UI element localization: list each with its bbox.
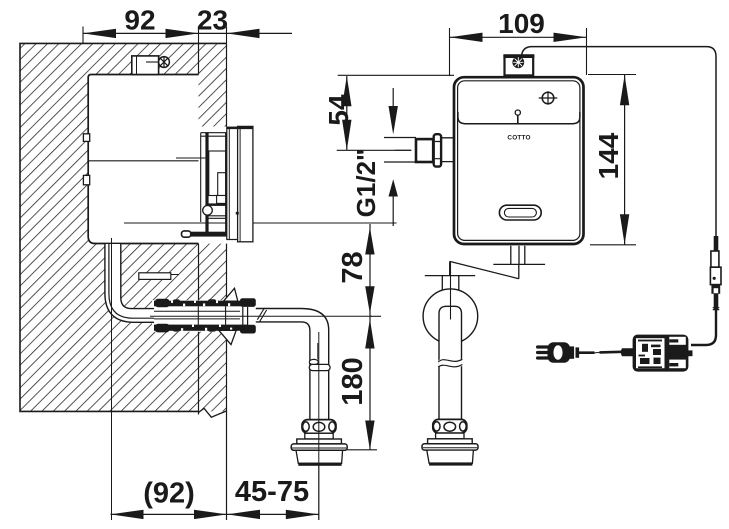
inline connector lower body: [710, 267, 721, 284]
wall hole for supply union: [152, 300, 227, 332]
svg-text:G1/2": G1/2": [351, 149, 381, 218]
G1/2 collar: [434, 134, 441, 166]
svg-text:45-75: 45-75: [235, 476, 309, 508]
arrow 92 left: [83, 29, 116, 38]
svg-text:(92): (92): [143, 478, 195, 510]
sensor panel: [458, 112, 580, 124]
valve black bar: [207, 203, 227, 206]
band break zigzag cutout: [199, 408, 227, 430]
wire tick marks: [713, 308, 720, 310]
union thread band bottom: [154, 325, 248, 331]
cistern divider line: [88, 160, 198, 162]
dim 78/180: [369, 224, 371, 450]
arrow 92 right / 23 left: [166, 29, 199, 38]
valve cavity rect lower: [218, 173, 226, 196]
sensor window oval: [499, 205, 541, 220]
band break zigzag lines: [199, 408, 227, 417]
G1/2 square body: [416, 139, 433, 162]
wire below connector: [714, 294, 719, 311]
mounting tab lower: [83, 175, 89, 184]
cone washer upper: [224, 288, 238, 301]
dim 109: [450, 36, 587, 38]
inline connector upper sleeve: [714, 236, 719, 252]
pipe mid line: [317, 343, 319, 360]
plate tick: [236, 212, 239, 215]
svg-text:78: 78: [337, 251, 369, 283]
svg-text:COTTO: COTTO: [507, 134, 530, 141]
union end nut: [240, 298, 256, 307]
dim 54: [338, 74, 454, 76]
valve trap bump: [203, 206, 213, 216]
wall inner face line: [198, 43, 200, 414]
stub to box: [442, 138, 455, 162]
plate junction dark line: [225, 133, 227, 236]
adapter body: [633, 335, 689, 372]
union thread band top: [154, 301, 248, 307]
spud centerline left: [318, 332, 320, 520]
inspection slot in wall: [139, 273, 171, 280]
ext line 92 left: [82, 27, 84, 45]
inlet pipe to fixture: [442, 276, 459, 292]
arrow 23 right: [227, 29, 260, 38]
flush elbow pipe white fill: [105, 244, 154, 322]
main box inner line: [458, 81, 580, 241]
valve outlet lines: [207, 216, 238, 219]
flush elbow outer wall: [105, 244, 154, 322]
pipe centerline extension to (92): [111, 238, 113, 520]
wall outer face / extension line to bottom dims: [226, 43, 228, 520]
wall finish layer hole for valve: [199, 127, 227, 244]
horizontal pipe centerline to dim: [150, 315, 372, 317]
adapter label: [636, 338, 665, 368]
sensor wire from connector: [522, 47, 717, 237]
top connector on box: [505, 55, 534, 75]
pipe break squiggle: [438, 358, 463, 367]
flush elbow mid wall: [109, 244, 154, 318]
cistern cavity cutout: [88, 75, 198, 244]
dim 144: [588, 75, 636, 245]
nipple centerline tick: [395, 149, 412, 151]
inlet small fitting: [182, 231, 191, 237]
dimensions: [83, 5, 636, 520]
pipe slip joint: [309, 359, 318, 364]
dim 92/23 line top: [83, 32, 292, 34]
faceplate inner plate: [227, 127, 238, 239]
valve top flange: [201, 133, 227, 222]
inline connector black band: [711, 285, 720, 294]
spud fitting left: [291, 420, 347, 466]
cone washer lower: [219, 330, 236, 344]
mounting tab upper: [83, 134, 89, 142]
adapter: [536, 236, 721, 372]
centerline front pipe: [450, 263, 452, 320]
inlet black bar: [191, 232, 227, 237]
keyhole symbol: [515, 110, 520, 115]
spud centerline left overlay: [318, 420, 320, 520]
supply union white strip: [154, 303, 256, 329]
wall hatched section: [20, 43, 397, 520]
valve cavity rect upper: [209, 151, 226, 196]
svg-text:180: 180: [337, 357, 369, 405]
fixture grommet circle: [423, 289, 478, 344]
plug body: [548, 342, 571, 362]
union left collar bumps: [155, 299, 170, 308]
connector screw: [512, 56, 524, 68]
flush elbow inner wall: [121, 244, 154, 309]
power cord: [578, 350, 622, 354]
outlet stub below box: [511, 246, 525, 265]
ext line 180 bottom: [347, 449, 377, 451]
flush pipe front: [439, 306, 462, 420]
supply pipe stub left: [384, 138, 416, 163]
dim (92)/45-75 bottom: [111, 513, 319, 515]
svg-text:109: 109: [498, 8, 545, 39]
pipe lines through union: [154, 311, 240, 319]
wall hatch body: [20, 43, 227, 411]
wire down to adapter: [691, 308, 716, 345]
adjuster target symbol: [542, 92, 554, 104]
adapter prong tabs: [669, 337, 686, 345]
front view: [384, 47, 716, 466]
top screw with leader: [146, 61, 160, 63]
svg-text:92: 92: [124, 5, 155, 36]
spud fitting right: [422, 419, 478, 465]
G1/2 leader arrows: [392, 88, 394, 226]
adapter cord strain relief: [621, 348, 633, 356]
pipe break tick: [257, 308, 266, 322]
ext lines 23: [199, 27, 227, 44]
wall lines crossing union: [198, 306, 225, 325]
cistern box outline: [88, 75, 198, 244]
wall outer edges: [20, 43, 227, 411]
svg-text:54: 54: [323, 94, 354, 126]
plug ferrule: [570, 346, 575, 358]
inlet centerline (long): [124, 222, 397, 224]
mech line stub: [176, 157, 205, 159]
adapter dc stub: [688, 350, 693, 356]
plug prongs: [536, 345, 549, 348]
urinal rim lines: [425, 261, 545, 278]
valve body thick line: [205, 132, 208, 236]
outlet pipe right of union: [256, 309, 329, 421]
svg-text:144: 144: [593, 132, 624, 179]
main box outer: [454, 77, 584, 244]
svg-text:23: 23: [197, 5, 228, 36]
faceplate outer cover: [238, 126, 253, 241]
top connector box: [132, 56, 159, 75]
